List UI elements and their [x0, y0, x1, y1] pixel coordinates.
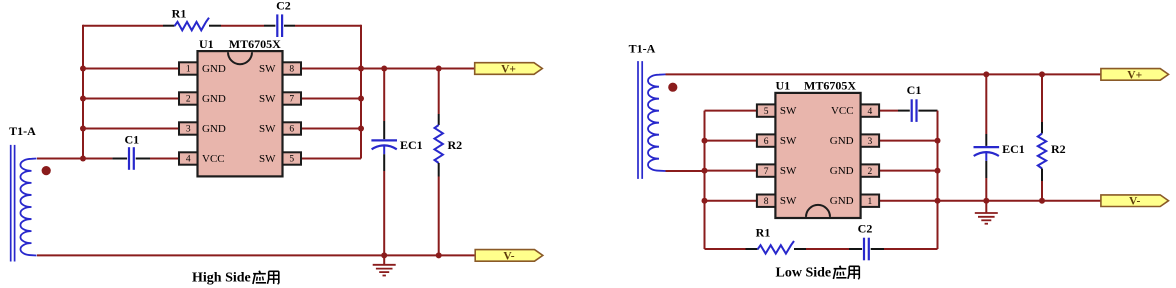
svg-text:1: 1 — [186, 65, 191, 75]
svg-text:SW: SW — [780, 165, 797, 177]
svg-text:High Side: High Side — [192, 271, 251, 286]
svg-text:V-: V- — [503, 250, 514, 262]
svg-text:MT6705X: MT6705X — [804, 79, 856, 93]
svg-text:4: 4 — [867, 107, 872, 117]
svg-text:EC1: EC1 — [400, 138, 423, 152]
svg-text:R1: R1 — [756, 226, 771, 240]
svg-text:2: 2 — [186, 95, 191, 105]
svg-text:GND: GND — [830, 165, 854, 177]
svg-text:MT6705X: MT6705X — [229, 37, 281, 51]
svg-text:T1-A: T1-A — [9, 124, 36, 138]
svg-text:Low Side: Low Side — [776, 266, 832, 281]
svg-text:U1: U1 — [199, 37, 214, 51]
svg-text:5: 5 — [289, 155, 294, 165]
svg-text:SW: SW — [259, 153, 276, 165]
svg-text:6: 6 — [289, 125, 294, 135]
svg-text:C2: C2 — [276, 0, 291, 12]
svg-text:GND: GND — [202, 93, 226, 105]
svg-text:V-: V- — [1129, 196, 1140, 208]
svg-text:1: 1 — [867, 197, 872, 207]
svg-text:EC1: EC1 — [1002, 142, 1025, 156]
svg-text:3: 3 — [186, 125, 191, 135]
svg-text:4: 4 — [186, 155, 191, 165]
svg-text:R2: R2 — [448, 138, 463, 152]
svg-text:R1: R1 — [172, 7, 187, 21]
svg-text:8: 8 — [764, 197, 769, 207]
svg-text:3: 3 — [867, 137, 872, 147]
svg-text:VCC: VCC — [202, 153, 225, 165]
svg-text:7: 7 — [764, 167, 769, 177]
svg-text:SW: SW — [780, 105, 797, 117]
svg-text:C1: C1 — [124, 133, 139, 147]
svg-text:VCC: VCC — [831, 105, 854, 117]
svg-text:T1-A: T1-A — [629, 42, 656, 56]
svg-text:SW: SW — [259, 123, 276, 135]
svg-text:C2: C2 — [858, 222, 873, 236]
svg-text:GND: GND — [830, 195, 854, 207]
svg-text:SW: SW — [780, 135, 797, 147]
svg-text:GND: GND — [830, 135, 854, 147]
svg-text:C1: C1 — [907, 83, 922, 97]
svg-text:7: 7 — [289, 95, 294, 105]
svg-text:SW: SW — [780, 195, 797, 207]
svg-text:SW: SW — [259, 63, 276, 75]
svg-text:SW: SW — [259, 93, 276, 105]
svg-text:2: 2 — [867, 167, 872, 177]
svg-text:5: 5 — [764, 107, 769, 117]
svg-text:U1: U1 — [776, 79, 791, 93]
svg-text:6: 6 — [764, 137, 769, 147]
svg-text:GND: GND — [202, 123, 226, 135]
svg-text:R2: R2 — [1051, 142, 1066, 156]
svg-text:V+: V+ — [501, 63, 516, 75]
svg-text:GND: GND — [202, 63, 226, 75]
svg-text:V+: V+ — [1127, 69, 1142, 81]
svg-text:8: 8 — [289, 65, 294, 75]
